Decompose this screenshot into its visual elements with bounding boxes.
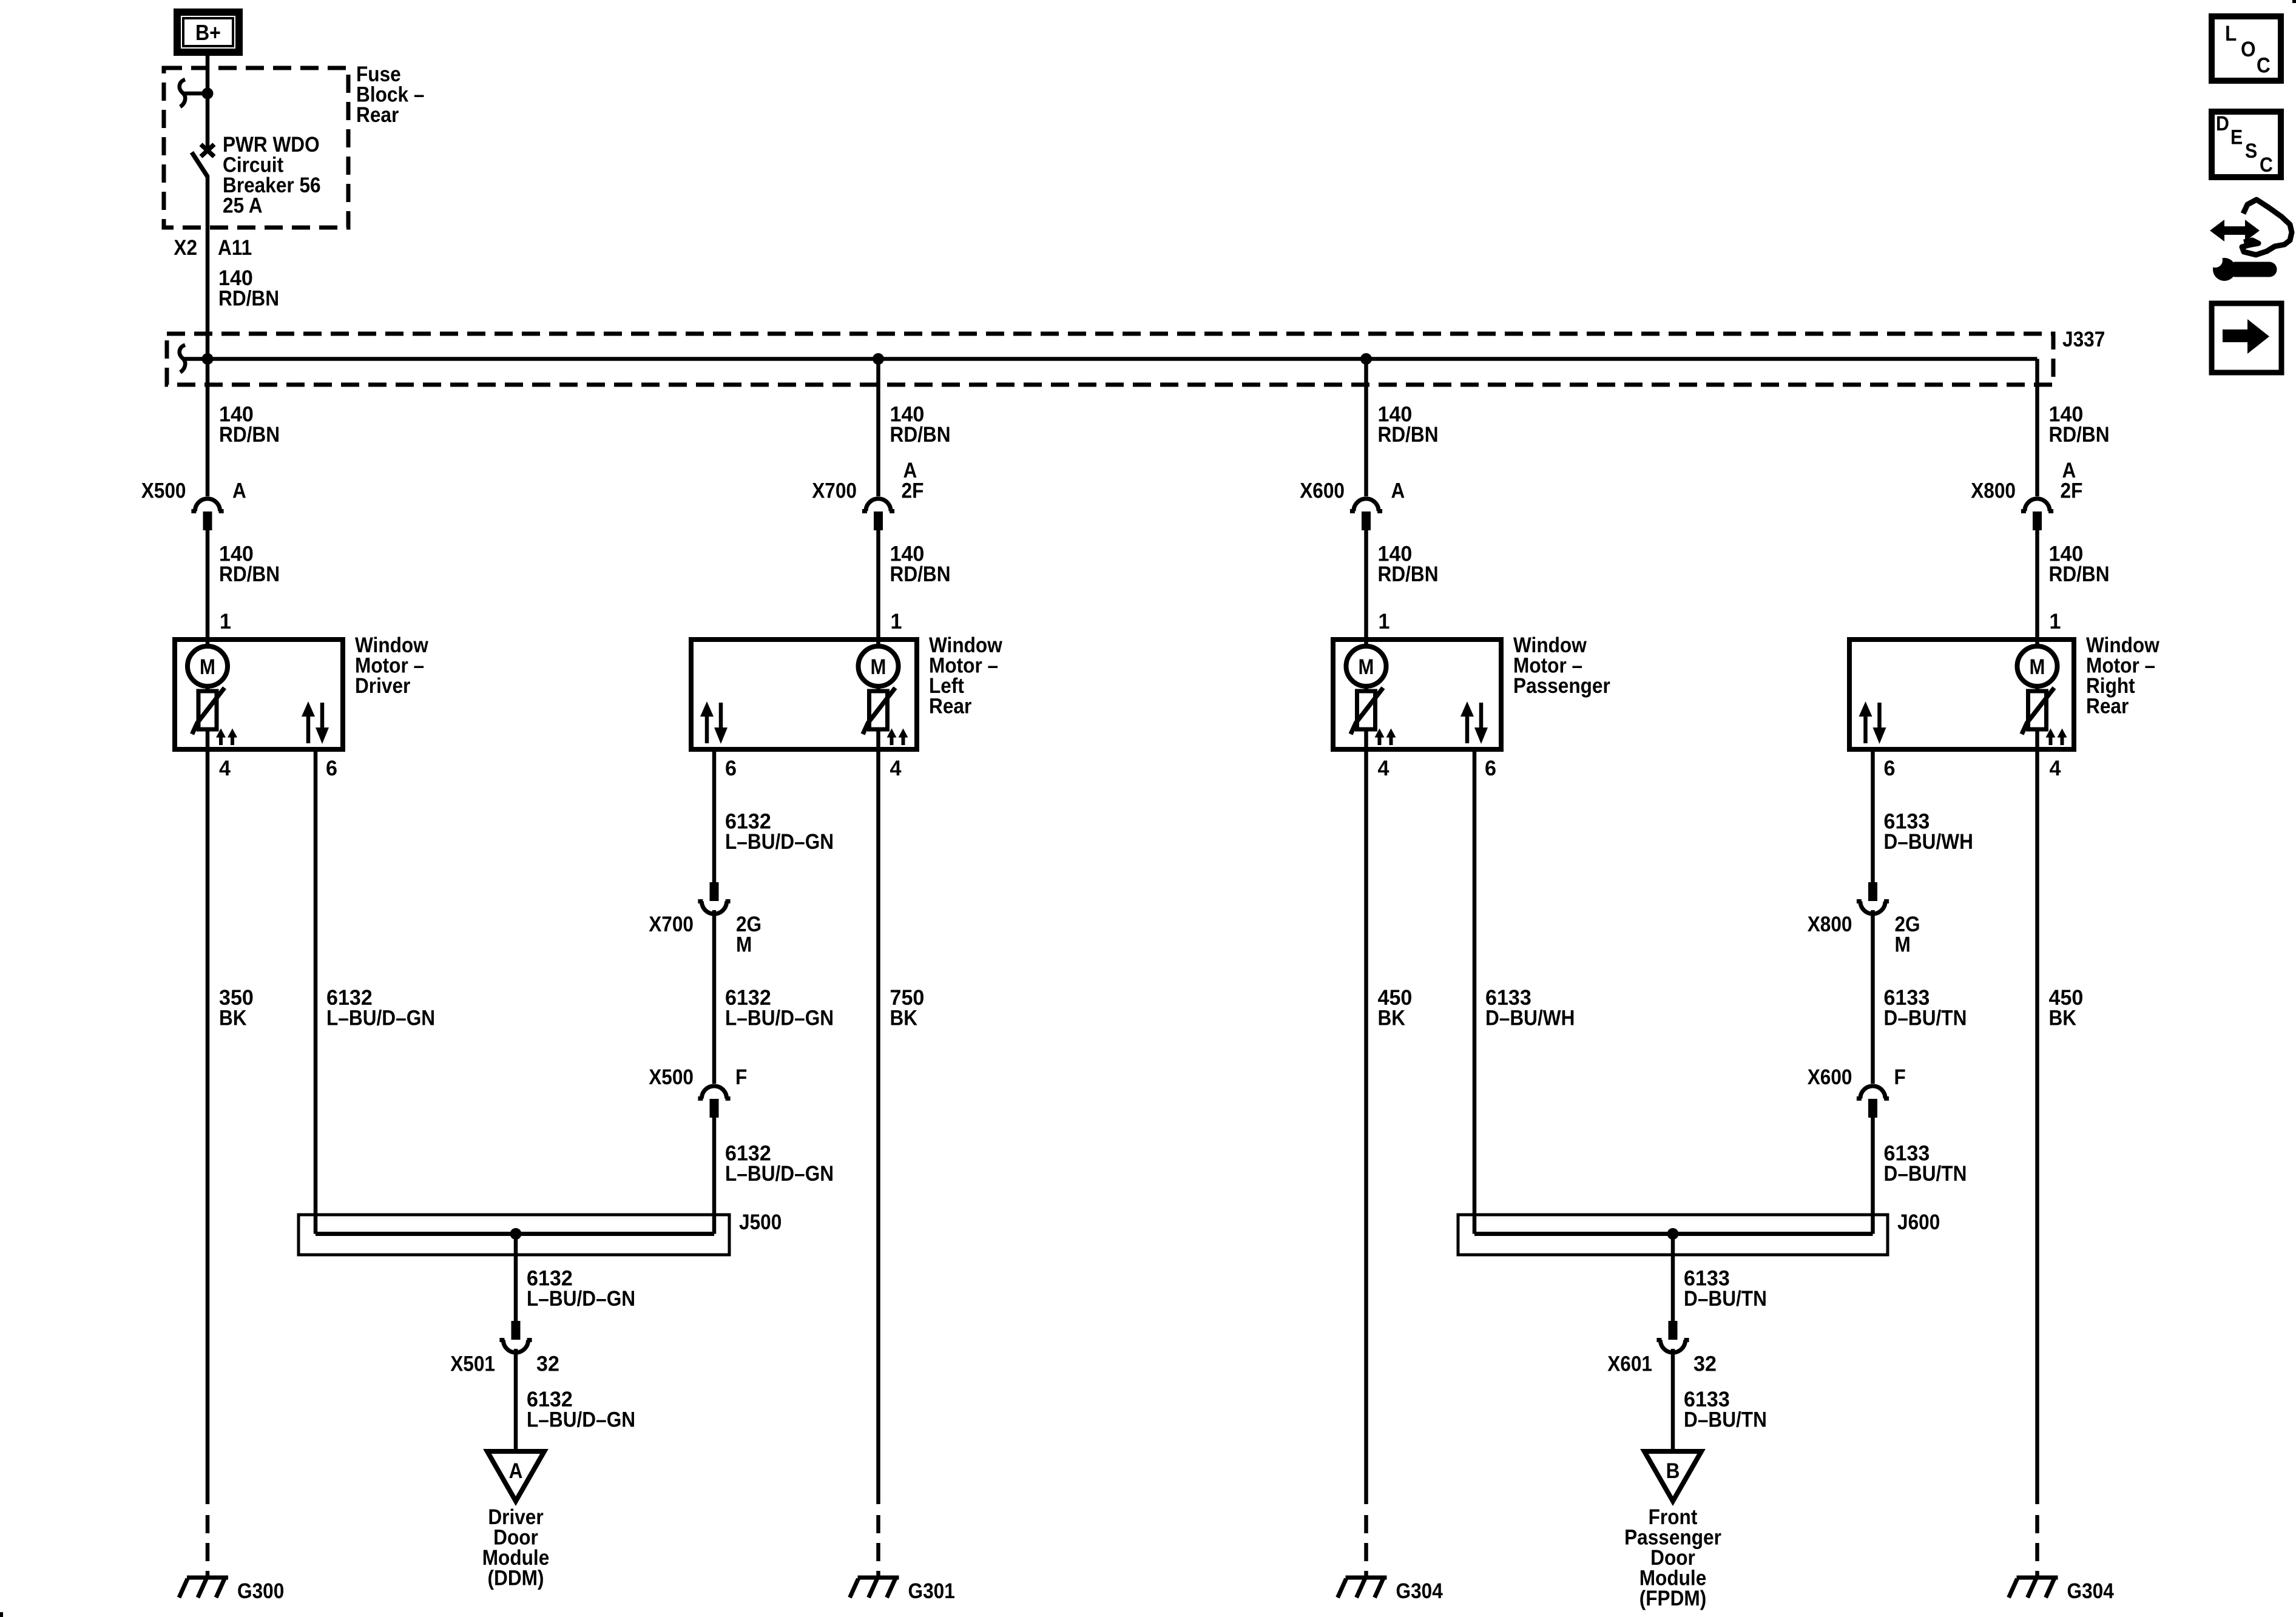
- connector X601 32: [1669, 1321, 1678, 1340]
- bus tap in J337: [180, 345, 185, 373]
- svg-text:BK: BK: [219, 1006, 247, 1030]
- svg-text:M: M: [2030, 655, 2045, 679]
- wire X700 2G to X500 F: [712, 910, 717, 1084]
- up/down arrow pair: [306, 715, 311, 743]
- ground G301 col2: [858, 1576, 899, 1580]
- svg-text:X700: X700: [812, 479, 857, 503]
- svg-text:X800: X800: [1971, 479, 2016, 503]
- wire motor to thermistor: [2035, 686, 2039, 692]
- dashed wire to ground col2: [876, 1515, 880, 1578]
- connector X800 2G M: [1868, 882, 1877, 901]
- wire pin4 to ground col1: [206, 749, 210, 1504]
- svg-text:D–BU/TN: D–BU/TN: [1884, 1006, 1967, 1030]
- junction dot J337 col3: [1360, 353, 1372, 365]
- splice pack J500 outline: [299, 1215, 729, 1255]
- svg-text:X500: X500: [649, 1065, 694, 1089]
- svg-text:D–BU/WH: D–BU/WH: [1485, 1006, 1575, 1030]
- svg-text:BK: BK: [2049, 1006, 2077, 1030]
- svg-text:25 A: 25 A: [223, 194, 263, 218]
- svg-text:M: M: [1895, 933, 1911, 957]
- wire pin6 to connector X700 2G: [712, 749, 717, 882]
- svg-text:Driver: Driver: [355, 673, 410, 698]
- wire J337 to connector X600: [1364, 359, 1368, 497]
- svg-text:E: E: [2230, 126, 2243, 149]
- wire thermistor to pin 4: [1364, 729, 1368, 749]
- svg-text:X500: X500: [141, 479, 186, 503]
- svg-text:D–BU/TN: D–BU/TN: [1684, 1408, 1767, 1432]
- off-page triangle B: [1644, 1451, 1701, 1501]
- svg-text:6: 6: [1884, 756, 1896, 780]
- svg-text:4: 4: [219, 756, 231, 780]
- svg-text:X501: X501: [450, 1352, 495, 1376]
- svg-text:D–BU/TN: D–BU/TN: [1684, 1286, 1767, 1311]
- wire motor internal top: [876, 640, 880, 647]
- thermistor (circuit breaker) element: [1357, 691, 1376, 729]
- svg-text:G304: G304: [2067, 1579, 2115, 1603]
- connector X501 32: [512, 1321, 521, 1340]
- svg-text:L–BU/D–GN: L–BU/D–GN: [527, 1408, 635, 1432]
- svg-text:L–BU/D–GN: L–BU/D–GN: [725, 1006, 834, 1030]
- wire connector to motor col2: [876, 530, 880, 640]
- svg-text:4: 4: [2050, 756, 2061, 780]
- svg-text:(DDM): (DDM): [488, 1566, 544, 1590]
- svg-text:D–BU/TN: D–BU/TN: [1884, 1161, 1967, 1186]
- svg-text:D–BU/WH: D–BU/WH: [1884, 829, 1973, 854]
- icon repair hand with arrow and wrench: [2223, 226, 2246, 235]
- svg-text:A: A: [509, 1459, 523, 1483]
- svg-text:L–BU/D–GN: L–BU/D–GN: [527, 1286, 635, 1311]
- ground G300 col1: [187, 1576, 228, 1580]
- svg-text:BK: BK: [890, 1006, 918, 1030]
- svg-text:BK: BK: [1378, 1006, 1406, 1030]
- icon forward arrow box: [2212, 303, 2281, 373]
- svg-text:L: L: [2225, 21, 2237, 46]
- wire connector to motor col4: [2035, 530, 2039, 640]
- svg-text:Passenger: Passenger: [1513, 673, 1610, 698]
- svg-text:M: M: [200, 655, 215, 679]
- motor circle M: [187, 646, 228, 686]
- svg-text:L–BU/D–GN: L–BU/D–GN: [725, 1161, 834, 1186]
- thermistor (circuit breaker) element: [198, 691, 217, 729]
- svg-text:G301: G301: [908, 1579, 955, 1603]
- icon LOC box: [2212, 16, 2281, 81]
- svg-text:1: 1: [891, 609, 902, 633]
- svg-text:1: 1: [2050, 609, 2061, 633]
- motor box outline: [691, 640, 917, 749]
- svg-text:A11: A11: [218, 235, 252, 260]
- svg-text:RD/BN: RD/BN: [219, 422, 280, 447]
- svg-text:6: 6: [725, 756, 737, 780]
- wire motor internal top: [2035, 640, 2039, 647]
- motor circle M: [1346, 646, 1386, 686]
- motor circle M: [859, 646, 899, 686]
- dashed wire to ground col4: [2035, 1515, 2039, 1578]
- circuit breaker 56 symbol: [201, 144, 214, 157]
- svg-text:RD/BN: RD/BN: [890, 562, 951, 586]
- junction dot J337 col2: [873, 353, 884, 365]
- up/down arrow pair: [705, 715, 709, 743]
- svg-text:L–BU/D–GN: L–BU/D–GN: [725, 829, 834, 854]
- fuse block dashed outline: [164, 68, 348, 228]
- thermistor (circuit breaker) element: [2028, 691, 2047, 729]
- wire X501 to triangle A: [514, 1349, 518, 1451]
- wire driver pin6 to J500: [314, 749, 318, 1234]
- connector X600 A: [1354, 499, 1379, 511]
- wire motor to thermistor: [206, 686, 210, 692]
- wire J337 to connector X500: [206, 359, 210, 497]
- double up arrows beside thermistor: [219, 735, 223, 745]
- svg-text:D: D: [2216, 112, 2229, 135]
- svg-text:M: M: [871, 655, 886, 679]
- svg-text:J600: J600: [1897, 1210, 1940, 1234]
- wire tap to circuit breaker: [206, 93, 210, 147]
- wire connector to motor col1: [206, 530, 210, 640]
- connector X600 F: [1860, 1086, 1885, 1099]
- svg-text:RD/BN: RD/BN: [1378, 422, 1439, 447]
- svg-text:RD/BN: RD/BN: [890, 422, 951, 447]
- svg-text:M: M: [736, 933, 752, 957]
- svg-text:X800: X800: [1808, 912, 1852, 936]
- wire pin6 to connector X800 2G: [1871, 749, 1875, 882]
- junction dot at fuse tap: [202, 88, 214, 100]
- svg-text:RD/BN: RD/BN: [1378, 562, 1439, 586]
- wire breaker to J337 bus: [206, 175, 210, 359]
- svg-text:A: A: [1391, 479, 1405, 503]
- thermistor (circuit breaker) element: [869, 691, 888, 729]
- wire thermistor to pin 4: [206, 729, 210, 749]
- svg-text:A: A: [232, 479, 246, 503]
- motor box outline: [175, 640, 343, 749]
- ground G304 col3: [1346, 1576, 1387, 1580]
- double up arrows beside thermistor: [1378, 735, 1382, 745]
- page corner mark top right: [2292, 0, 2296, 3]
- svg-text:G300: G300: [237, 1579, 284, 1603]
- svg-text:J337: J337: [2062, 327, 2105, 351]
- wire X601 to triangle B: [1671, 1349, 1675, 1451]
- splice pack J600 outline: [1458, 1215, 1888, 1255]
- wire motor to thermistor: [876, 686, 880, 692]
- wire thermistor to pin 4: [2035, 729, 2039, 749]
- wire J337 to connector X700: [876, 359, 880, 497]
- svg-text:B+: B+: [195, 20, 221, 45]
- svg-text:2F: 2F: [2061, 479, 2083, 503]
- motor circle M: [2017, 646, 2058, 686]
- up/down arrow pair: [1863, 715, 1868, 743]
- wire connector to motor col3: [1364, 530, 1368, 640]
- svg-text:32: 32: [1693, 1352, 1717, 1376]
- wire pin4 to ground col2: [876, 749, 880, 1504]
- svg-text:1: 1: [220, 609, 231, 633]
- splice pack J337 dashed outline: [167, 334, 2053, 385]
- wire pin4 to ground col4: [2035, 749, 2039, 1504]
- wire passenger pin6 to J600: [1473, 749, 1477, 1234]
- wire J337 to connector X800: [2035, 359, 2039, 497]
- svg-text:L–BU/D–GN: L–BU/D–GN: [326, 1006, 435, 1030]
- svg-text:X2: X2: [174, 235, 197, 260]
- wire thermistor to pin 4: [876, 729, 880, 749]
- svg-text:X600: X600: [1808, 1065, 1852, 1089]
- svg-text:X700: X700: [649, 912, 694, 936]
- bus tap in fuse block: [180, 79, 185, 107]
- wire B+ to fuse block: [206, 56, 210, 91]
- svg-text:32: 32: [536, 1352, 559, 1376]
- dashed wire to ground col3: [1364, 1515, 1368, 1578]
- wire X800 2G to X600 F: [1871, 910, 1875, 1084]
- svg-text:J500: J500: [739, 1210, 782, 1234]
- connector X700 2F: [866, 499, 891, 511]
- svg-text:6: 6: [1485, 756, 1496, 780]
- junction dot J500: [510, 1228, 522, 1240]
- svg-text:C: C: [2260, 154, 2273, 177]
- svg-text:RD/BN: RD/BN: [218, 286, 279, 311]
- svg-text:X600: X600: [1300, 479, 1345, 503]
- svg-text:C: C: [2257, 53, 2271, 78]
- svg-text:4: 4: [890, 756, 902, 780]
- svg-text:Rear: Rear: [356, 103, 399, 127]
- motor box outline: [1849, 640, 2074, 749]
- dashed wire to ground col1: [206, 1515, 210, 1578]
- wire motor internal top: [1364, 640, 1368, 647]
- svg-text:B: B: [1666, 1459, 1680, 1483]
- page corner mark bottom left: [0, 1612, 3, 1617]
- splice pack J600 bus: [1474, 1232, 1873, 1236]
- svg-text:S: S: [2245, 140, 2257, 163]
- wire B splice to X601: [1671, 1234, 1675, 1322]
- svg-text:Rear: Rear: [929, 694, 971, 718]
- svg-text:G304: G304: [1396, 1579, 1443, 1603]
- wire X600 F to splice: [1871, 1117, 1875, 1234]
- motor box outline: [1333, 640, 1501, 749]
- wire motor to thermistor: [1364, 686, 1368, 692]
- junction dot J600: [1667, 1228, 1679, 1240]
- svg-text:M: M: [1359, 655, 1374, 679]
- wire motor internal top: [206, 640, 210, 647]
- svg-text:RD/BN: RD/BN: [2049, 422, 2110, 447]
- battery feed B+ symbol: [177, 12, 239, 52]
- svg-text:RD/BN: RD/BN: [2049, 562, 2110, 586]
- svg-text:(FPDM): (FPDM): [1639, 1586, 1707, 1610]
- svg-text:6: 6: [326, 756, 337, 780]
- double up arrows beside thermistor: [890, 735, 894, 745]
- wire A splice to X501: [514, 1234, 518, 1322]
- svg-text:F: F: [735, 1065, 747, 1089]
- wire X500 F to splice: [712, 1117, 717, 1234]
- svg-text:2F: 2F: [902, 479, 924, 503]
- off-page triangle A: [487, 1451, 544, 1501]
- connector X500 F: [701, 1086, 726, 1099]
- double up arrows beside thermistor: [2049, 735, 2053, 745]
- connector X800 2F: [2025, 499, 2050, 511]
- up/down arrow pair: [1465, 715, 1470, 743]
- connector X500 A: [195, 499, 220, 511]
- icon DESC box: [2212, 112, 2281, 177]
- splice pack J500 bus: [316, 1232, 714, 1236]
- svg-text:Rear: Rear: [2086, 694, 2129, 718]
- svg-text:O: O: [2241, 37, 2256, 61]
- svg-text:4: 4: [1378, 756, 1389, 780]
- svg-text:X601: X601: [1607, 1352, 1652, 1376]
- junction dot J337 col1: [202, 353, 214, 365]
- J337 bus wire: [208, 357, 2038, 361]
- connector X700 2G M: [710, 882, 719, 901]
- svg-text:RD/BN: RD/BN: [219, 562, 280, 586]
- ground G304 col4: [2017, 1576, 2058, 1580]
- svg-text:1: 1: [1379, 609, 1390, 633]
- svg-text:F: F: [1894, 1065, 1906, 1089]
- wire pin4 to ground col3: [1364, 749, 1368, 1504]
